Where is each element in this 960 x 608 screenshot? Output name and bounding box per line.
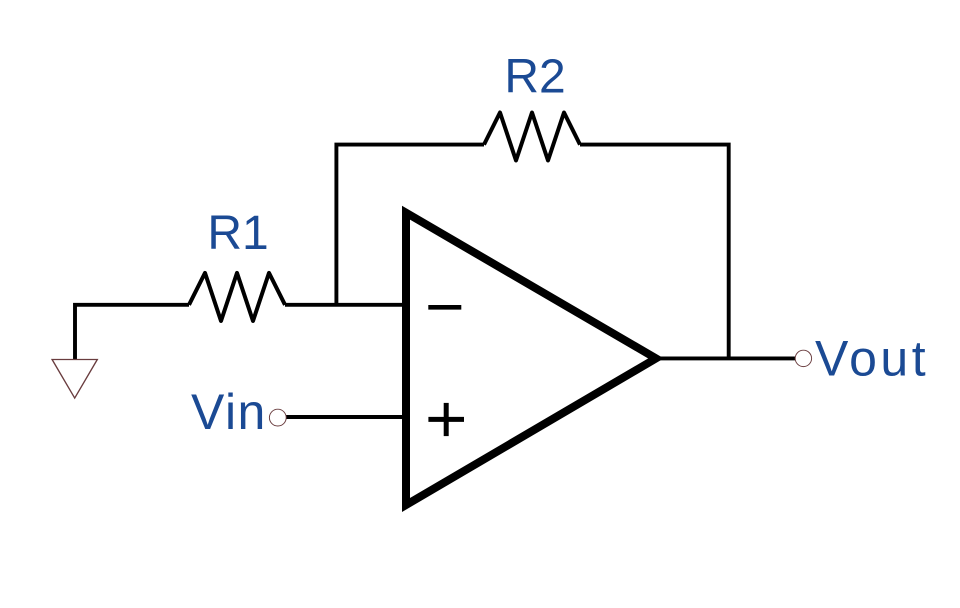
ground [52, 360, 97, 399]
wire ground-to-R1 [75, 305, 189, 360]
op-amp inverting input minus sign [428, 305, 461, 310]
svg-text:R1: R1 [207, 207, 268, 260]
label R2 [504, 51, 565, 104]
op-amp noninverting input plus sign [428, 403, 464, 436]
wire feedback left vertical and top [336, 145, 484, 305]
label R1 [207, 207, 268, 260]
node Vin terminal circle [269, 409, 286, 426]
resistor R2 [484, 113, 580, 161]
wire output [658, 356, 795, 360]
node Vout terminal circle [795, 350, 811, 366]
wire Vin to opamp noninverting input [286, 415, 409, 419]
wire R1-to-opamp inverting input [285, 303, 409, 307]
wire R2 to right corner and down to output [580, 145, 729, 359]
svg-text:Vin: Vin [191, 384, 267, 440]
resistor R1 [189, 273, 285, 321]
label Vin [191, 384, 267, 440]
svg-text:R2: R2 [504, 51, 565, 104]
label Vout [815, 331, 929, 387]
op-amp U1 [406, 213, 656, 505]
svg-text:Vout: Vout [815, 331, 929, 387]
